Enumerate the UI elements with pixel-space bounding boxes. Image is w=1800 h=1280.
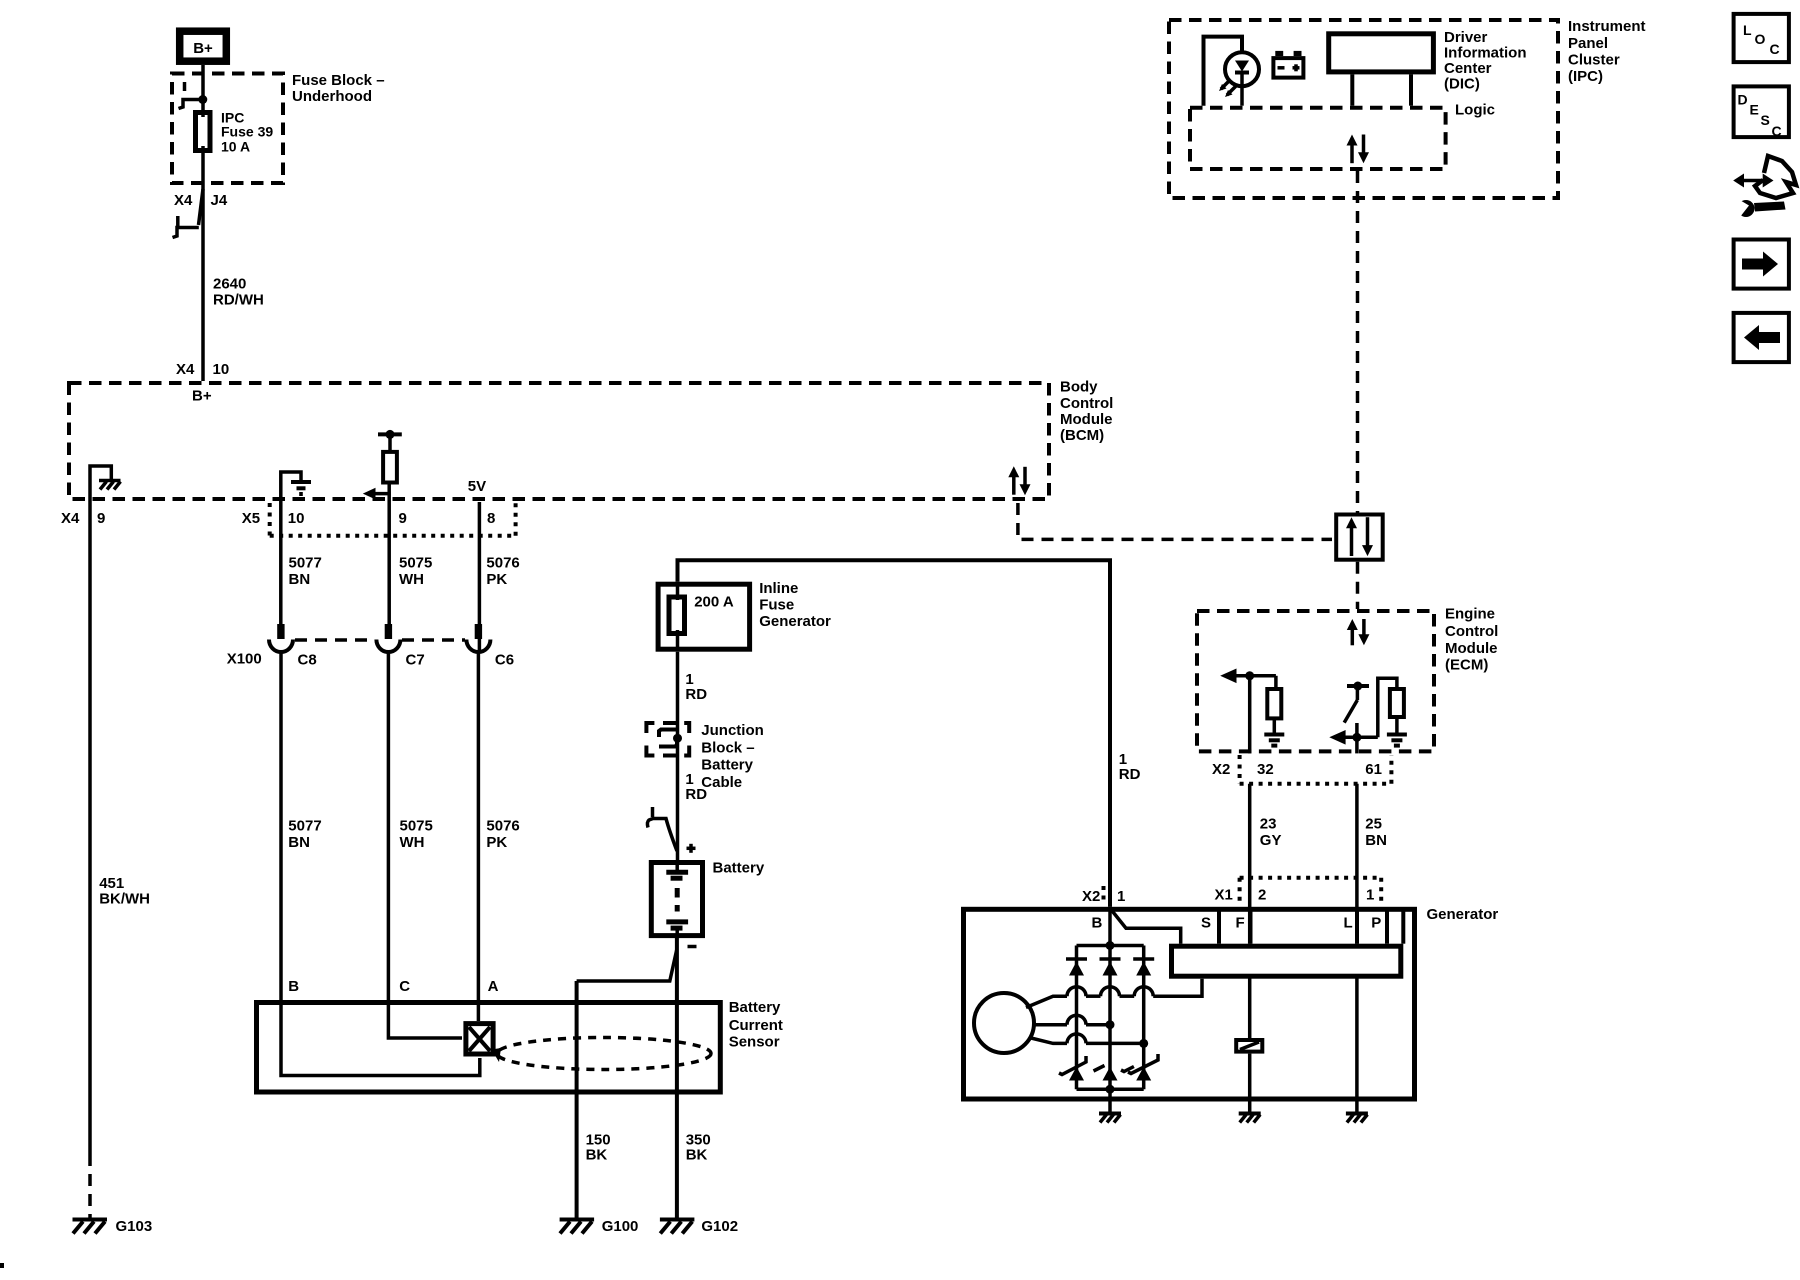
plus sign at battery [687, 844, 696, 853]
ECM wire pin X2-32 [1248, 676, 1252, 754]
svg-text:23: 23 [1260, 816, 1277, 833]
svg-text:BN: BN [1365, 832, 1387, 849]
rectifier diode top 2 [1100, 959, 1121, 976]
fuse IPC Fuse 39 10A [196, 110, 274, 155]
svg-text:X2: X2 [1212, 761, 1230, 778]
label Engine Control Module (ECM) [1445, 606, 1498, 674]
svg-text:32: 32 [1257, 761, 1274, 778]
5V reference label and wire pin X5-8 [468, 478, 486, 652]
svg-text:Panel: Panel [1568, 35, 1608, 52]
svg-text:Control: Control [1445, 623, 1498, 640]
X100 connector labels [227, 651, 514, 669]
svg-text:X5: X5 [242, 510, 260, 527]
svg-text:S: S [1761, 112, 1770, 128]
svg-text:BK/WH: BK/WH [99, 891, 150, 908]
wire 5075 WH upper segment [389, 501, 432, 624]
rectifier diode bottom 3 with avalanche slash [1128, 1054, 1158, 1081]
connector hook at battery positive [647, 807, 677, 851]
svg-text:C: C [399, 978, 410, 995]
label Driver Information Center (DIC) [1444, 29, 1527, 93]
svg-text:Block –: Block – [701, 739, 754, 756]
svg-text:RD: RD [1119, 766, 1141, 783]
pin labels B C A at sensor [288, 978, 498, 995]
svg-text:O: O [1755, 31, 1766, 47]
svg-text:10: 10 [213, 361, 230, 378]
X100 dashed connector line [295, 638, 465, 642]
svg-text:Driver: Driver [1444, 29, 1488, 46]
svg-text:Generator: Generator [759, 613, 831, 630]
svg-text:Engine: Engine [1445, 606, 1495, 623]
toolbar icon back arrow box [1734, 313, 1789, 362]
svg-text:WH: WH [399, 571, 424, 588]
sensor internal wire B branch [281, 1000, 480, 1076]
svg-text:451: 451 [99, 875, 124, 892]
ECM signal ground left [1264, 735, 1284, 746]
generator pin cell dividers S F L P [1219, 909, 1403, 944]
svg-text:PK: PK [486, 571, 507, 588]
svg-text:61: 61 [1365, 761, 1382, 778]
wire 150 BK through sensor to G100 [577, 981, 611, 1218]
svg-text:Fuse Block –: Fuse Block – [292, 72, 385, 89]
minus sign at battery [688, 945, 697, 949]
svg-text:B+: B+ [192, 388, 212, 405]
svg-text:5077: 5077 [289, 555, 322, 572]
label Battery Current Sensor [729, 999, 783, 1051]
label Junction Block Battery Cable [701, 722, 764, 791]
svg-text:Cable: Cable [701, 774, 742, 791]
wire 5077 BN lower segment [281, 652, 322, 1000]
ECM lamp monitor arrow [1329, 678, 1397, 744]
voltage regulator box [1172, 946, 1401, 976]
rectifier bridge bottom bus [1077, 1085, 1144, 1094]
instrument panel cluster IPC dashed box [1169, 20, 1558, 198]
ground G100 [560, 1218, 639, 1235]
svg-text:Body: Body [1060, 379, 1098, 396]
svg-text:GY: GY [1260, 832, 1282, 849]
svg-text:Fuse: Fuse [759, 597, 794, 614]
svg-text:1: 1 [1366, 887, 1374, 904]
svg-text:RD/WH: RD/WH [213, 292, 264, 309]
svg-text:Battery: Battery [729, 999, 781, 1016]
ECM field control output arrow [1220, 669, 1276, 684]
ground G103 [73, 1218, 153, 1235]
wire 350 BK through sensor to G102 [677, 938, 711, 1218]
BCM internal ground branch pin X4-9 [90, 466, 111, 501]
pin labels X4 9 [61, 510, 105, 527]
wire B+ to BCM pin X4-10 (2640 RD/WH) [201, 65, 205, 381]
toolbar icon LOC box [1734, 14, 1789, 62]
svg-text:Generator: Generator [1427, 906, 1499, 923]
BCM internal 5V pull-up resistor branch pin X5-9 [378, 430, 402, 501]
label Instrument Panel Cluster (IPC) [1568, 18, 1646, 85]
connector X100 C7 [376, 624, 400, 652]
body control module BCM dashed box [69, 383, 1049, 499]
engine control module ECM dashed box [1197, 611, 1434, 751]
toolbar icon DESC box [1734, 86, 1789, 139]
ECM resistor right [1390, 689, 1404, 733]
svg-text:C: C [1772, 123, 1782, 139]
wire label 1 RD at generator feed [1119, 751, 1141, 783]
toolbar icon forward arrow box [1734, 240, 1789, 289]
svg-text:Control: Control [1060, 395, 1113, 412]
svg-text:E: E [1750, 102, 1759, 118]
svg-text:A: A [488, 978, 499, 995]
svg-text:BN: BN [289, 571, 311, 588]
serial data junction box [1336, 515, 1383, 560]
svg-text:Logic: Logic [1455, 102, 1495, 119]
battery [651, 862, 702, 938]
rectifier diode top 1 [1066, 959, 1087, 976]
wire label 2640 RD/WH [213, 276, 264, 309]
svg-text:X4: X4 [174, 192, 193, 209]
svg-text:5076: 5076 [486, 818, 519, 835]
ECM serial data arrows [1347, 619, 1370, 645]
generator box [964, 909, 1415, 1099]
svg-text:Instrument: Instrument [1568, 18, 1646, 35]
svg-text:BK: BK [586, 1147, 608, 1164]
svg-text:C6: C6 [495, 652, 514, 669]
svg-text:5V: 5V [468, 478, 486, 495]
serial data wire junction to ECM [1356, 562, 1360, 609]
svg-text:G102: G102 [701, 1218, 738, 1235]
svg-text:2640: 2640 [213, 276, 246, 293]
svg-text:G103: G103 [116, 1218, 153, 1235]
svg-text:X2: X2 [1082, 888, 1100, 905]
svg-text:Inline: Inline [759, 580, 798, 597]
label Inline Fuse Generator [759, 580, 831, 630]
svg-text:C7: C7 [406, 652, 425, 669]
wire 5076 PK upper segment [486, 555, 519, 589]
svg-text:PK: PK [486, 834, 507, 851]
svg-text:Sensor: Sensor [729, 1034, 780, 1051]
connector X100 C6 [466, 624, 490, 652]
svg-text:X4: X4 [176, 361, 195, 378]
wire 451 BK/WH to G103 [90, 501, 150, 1218]
resistor in BCM [383, 452, 397, 483]
chassis ground under generator L [1346, 1114, 1368, 1123]
battery current sensor box [257, 1003, 721, 1093]
ground G102 [660, 1218, 738, 1235]
signal ground symbol in BCM [291, 482, 311, 494]
IPC logic dashed box [1190, 108, 1446, 169]
svg-text:D: D [1738, 92, 1748, 108]
svg-text:2: 2 [1258, 887, 1266, 904]
ECM pull-down resistor [1267, 676, 1281, 733]
svg-text:Cluster: Cluster [1568, 52, 1620, 69]
svg-text:X100: X100 [227, 651, 262, 668]
pin labels X4 10 at BCM top [176, 361, 229, 378]
svg-text:C: C [1770, 41, 1780, 57]
svg-text:Battery: Battery [713, 859, 765, 876]
IPC serial data arrows [1347, 135, 1370, 164]
svg-text:5075: 5075 [399, 555, 432, 572]
svg-text:10 A: 10 A [221, 139, 250, 155]
svg-text:200 A: 200 A [694, 594, 734, 611]
sensor internal wire C branch [388, 1000, 462, 1038]
battery symbol icon in IPC [1273, 51, 1303, 78]
svg-text:5075: 5075 [400, 818, 433, 835]
svg-text:C8: C8 [298, 652, 317, 669]
connector X5 dotted box and labels [242, 503, 516, 536]
svg-text:Module: Module [1445, 640, 1498, 657]
svg-text:25: 25 [1365, 816, 1382, 833]
connector X100 C8 [269, 624, 293, 652]
svg-text:J4: J4 [211, 192, 228, 209]
svg-text:1: 1 [1117, 888, 1125, 905]
junction block battery cable [646, 723, 689, 756]
svg-text:B+: B+ [193, 40, 213, 57]
rectifier bridge top bus [1077, 941, 1144, 950]
page margin artifact dot [0, 1263, 4, 1268]
connector hook at fuse block feed [179, 82, 208, 109]
connector X2 1 labels at generator B [1082, 886, 1125, 905]
wire 1 RD fuse to battery [678, 652, 708, 861]
svg-text:Fuse 39: Fuse 39 [221, 124, 273, 140]
serial data wire IPC to junction [1356, 171, 1360, 513]
svg-text:F: F [1236, 915, 1245, 932]
svg-text:RD: RD [685, 786, 707, 803]
ECM signal ground right [1387, 735, 1407, 746]
signal output arrow in BCM [363, 488, 391, 500]
svg-text:5076: 5076 [486, 555, 519, 572]
svg-text:Junction: Junction [701, 722, 764, 739]
ECM wire pin X2-61 [1355, 723, 1359, 753]
svg-text:8: 8 [487, 510, 495, 527]
stator phase wire middle [1034, 1015, 1115, 1029]
rectifier diode top 3 [1133, 959, 1154, 976]
svg-text:BK: BK [686, 1147, 708, 1164]
svg-text:Battery: Battery [701, 757, 753, 774]
svg-text:P: P [1371, 915, 1381, 932]
wire label 1 RD at battery [685, 771, 707, 803]
svg-text:9: 9 [97, 510, 105, 527]
generator L branch ground wire [1355, 976, 1359, 1112]
stator phase wire bottom [1029, 1034, 1148, 1048]
svg-text:5077: 5077 [288, 818, 321, 835]
svg-text:B: B [288, 978, 299, 995]
chassis ground under generator B [1099, 1114, 1121, 1123]
rectifier diode bottom 2 with avalanche slash [1094, 1066, 1134, 1081]
label Body Control Module (BCM) [1060, 379, 1113, 445]
wire 25 BN pin 61 to generator L [1357, 784, 1387, 944]
svg-text:G100: G100 [602, 1218, 639, 1235]
svg-text:10: 10 [288, 510, 305, 527]
wire inline fuse to 1 RD generator feed [678, 560, 1111, 907]
serial data wire BCM to junction [1018, 503, 1332, 539]
svg-text:X4: X4 [61, 510, 80, 527]
current sensor element X box [466, 1024, 493, 1054]
wire B to regulator [1111, 910, 1181, 944]
svg-text:(DIC): (DIC) [1444, 76, 1480, 93]
svg-text:X1: X1 [1215, 887, 1233, 904]
rectifier bridge column wires [1077, 907, 1144, 1089]
charge indicator LED [1219, 52, 1259, 106]
ECM switch to pin X2-61 [1344, 682, 1369, 723]
wire 5077 BN upper segment [281, 501, 322, 624]
svg-text:(IPC): (IPC) [1568, 68, 1603, 85]
rectifier diode bottom 1 with avalanche slash [1059, 1056, 1086, 1081]
generator B main ground wire [1108, 1089, 1112, 1112]
stator phase wire to regulator with hops [1026, 979, 1202, 1008]
inline fuse generator box [658, 584, 750, 651]
svg-text:Information: Information [1444, 45, 1527, 62]
svg-text:B: B [1092, 915, 1103, 932]
svg-text:(ECM): (ECM) [1445, 656, 1488, 673]
connector hook at X4 J4 [173, 189, 204, 238]
svg-text:9: 9 [399, 510, 407, 527]
generator F branch with indicator element [1236, 976, 1262, 1112]
connector X1 dotted box and labels [1215, 878, 1382, 905]
label Fuse Block Underhood [292, 72, 385, 105]
svg-text:WH: WH [400, 834, 425, 851]
connector X4 J4 labels [174, 192, 228, 209]
driver information center DIC display box [1329, 34, 1434, 106]
rotor field winding circle [974, 993, 1034, 1053]
toolbar icon wiring route with wrench [1730, 156, 1796, 217]
wire 5076 PK lower segment [478, 652, 519, 1021]
wire 5075 WH lower segment [388, 652, 432, 1000]
BCM serial data arrows [1008, 466, 1030, 495]
chassis ground in BCM [99, 481, 121, 490]
svg-text:Center: Center [1444, 60, 1492, 77]
generator pin labels B S F L P [1092, 915, 1382, 932]
chassis ground under generator F [1239, 1114, 1261, 1123]
battery negative jog wire [577, 949, 677, 981]
sensed conductor dashed ellipse loop [492, 1038, 712, 1070]
svg-text:Module: Module [1060, 411, 1113, 428]
svg-text:RD: RD [685, 686, 707, 703]
connector X2 dotted box and labels [1212, 755, 1391, 784]
charge indicator telltale frame [1204, 37, 1243, 106]
svg-text:(BCM): (BCM) [1060, 427, 1104, 444]
svg-text:Current: Current [729, 1017, 783, 1034]
svg-text:S: S [1201, 915, 1211, 932]
battery positive feed B+ box [180, 31, 227, 61]
wire 23 GY pin 32 to generator F [1250, 784, 1282, 944]
svg-text:L: L [1344, 915, 1353, 932]
svg-text:Underhood: Underhood [292, 88, 372, 105]
svg-text:L: L [1743, 22, 1752, 38]
fuse block underhood dashed box [172, 74, 283, 184]
svg-text:BN: BN [288, 834, 310, 851]
BCM internal ground branch pin X5-10 [281, 472, 301, 501]
